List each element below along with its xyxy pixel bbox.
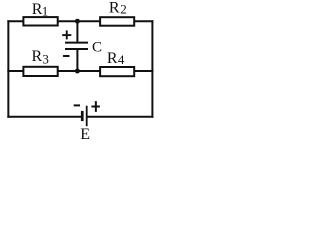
- wire top left segment: [8, 20, 23, 22]
- node top junction dot: [75, 19, 80, 24]
- svg-text:3: 3: [42, 51, 49, 66]
- wire bottom right segment: [87, 116, 152, 118]
- battery minus sign: [74, 104, 80, 106]
- svg-text:R: R: [32, 48, 43, 65]
- svg-text:R: R: [109, 0, 120, 17]
- svg-text:E: E: [80, 126, 90, 141]
- wire bottom left segment: [8, 116, 81, 118]
- resistor R4: [100, 67, 134, 76]
- wire middle right segment: [134, 70, 152, 72]
- battery E positive plate long bar: [86, 106, 88, 127]
- wire capacitor top lead: [76, 21, 78, 42]
- svg-text:2: 2: [120, 2, 127, 17]
- svg-text:4: 4: [118, 52, 125, 67]
- capacitor plus sign: [62, 30, 71, 39]
- capacitor minus sign: [63, 55, 70, 57]
- battery plus sign: [91, 101, 100, 112]
- svg-text:R: R: [107, 50, 118, 67]
- capacitor C top plate: [65, 42, 88, 44]
- resistor R3: [23, 67, 57, 76]
- wire capacitor bottom lead: [76, 49, 78, 71]
- wire top right segment: [134, 20, 152, 22]
- wire middle left segment: [8, 70, 23, 72]
- wire right vertical: [151, 21, 153, 117]
- battery E negative plate short bar: [81, 111, 84, 121]
- wire left vertical: [7, 21, 9, 117]
- resistor R2: [100, 17, 134, 26]
- wire middle center segment: [58, 70, 100, 72]
- node middle junction dot: [75, 69, 80, 74]
- resistor R1: [23, 17, 57, 25]
- svg-text:C: C: [92, 40, 102, 56]
- capacitor C bottom plate: [65, 48, 88, 50]
- svg-text:1: 1: [42, 4, 49, 19]
- wire top middle segment: [58, 20, 100, 22]
